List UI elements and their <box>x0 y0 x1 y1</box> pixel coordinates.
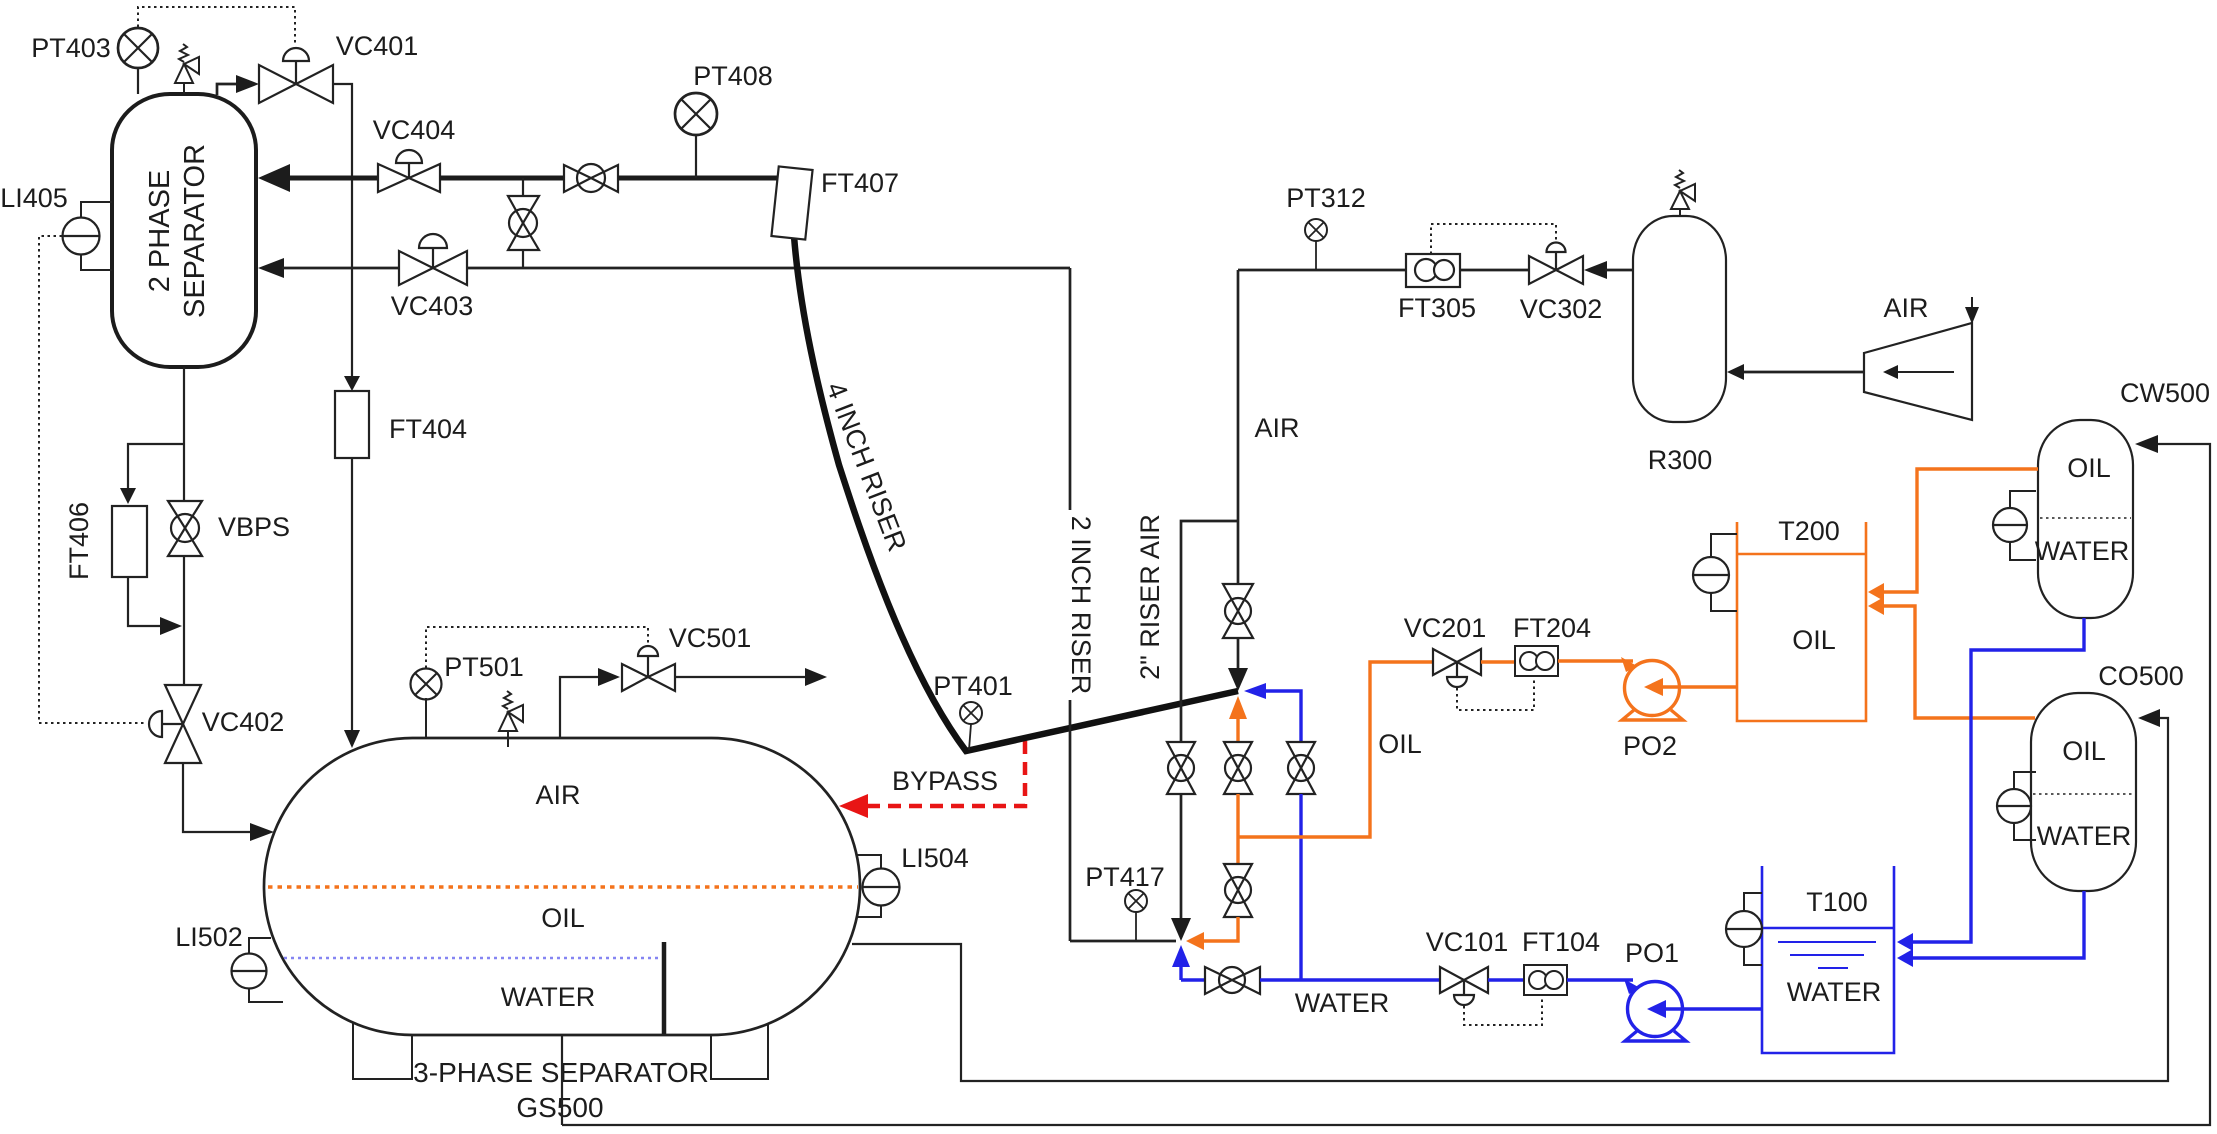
arrow suction into PO2 <box>1621 657 1637 672</box>
compressor air intake funnel <box>1864 323 1972 420</box>
valve VC501 <box>622 646 675 691</box>
svg-text:OIL: OIL <box>1792 625 1836 655</box>
pipe AIR valve to top junction <box>1237 638 1240 670</box>
flow transmitter FT305 <box>1406 254 1460 287</box>
svg-text:FT407: FT407 <box>821 168 899 198</box>
svg-text:FT406: FT406 <box>64 502 94 580</box>
pipe oil to 2 inch riser junction (orange) <box>1203 917 1238 941</box>
control loop VC101 to FT104 (dotted) <box>1464 995 1542 1025</box>
tank T200 (oil) <box>1737 522 1866 721</box>
relief valve on R300 <box>1671 170 1695 217</box>
bypass line (red dashed) <box>864 741 1025 806</box>
svg-text:BYPASS: BYPASS <box>892 766 998 796</box>
pipe compressor to R300 <box>1742 371 1864 374</box>
pipe water header left segment (blue) <box>1181 978 1205 981</box>
instrument PT401 <box>960 702 982 750</box>
instrument level gauge CO500 <box>1997 772 2036 840</box>
svg-text:T100: T100 <box>1806 887 1868 917</box>
arrow into CO500 <box>2138 709 2160 727</box>
bracket LI405 to vessel <box>81 202 112 270</box>
pipe VC403 to 2 inch riser <box>467 267 1070 270</box>
svg-text:PT408: PT408 <box>693 61 773 91</box>
svg-text:VC402: VC402 <box>202 707 285 737</box>
interface dotted CO500 <box>2033 793 2134 795</box>
svg-text:WATER: WATER <box>1295 988 1390 1018</box>
svg-text:2 INCH RISER: 2 INCH RISER <box>1066 516 1096 695</box>
globe valve on 2 inch riser air line <box>1167 742 1195 794</box>
pipe water header to VC101 (blue) <box>1260 978 1440 981</box>
globe valve vertical on cross connection <box>508 196 539 250</box>
pipe VC403 line left segment <box>282 267 399 270</box>
flow transmitter FT407 <box>771 166 812 239</box>
svg-text:FT305: FT305 <box>1398 293 1476 323</box>
instrument LI504 <box>863 869 900 906</box>
svg-text:2" RISER AIR: 2" RISER AIR <box>1135 514 1165 680</box>
globe valve on 4 inch line <box>564 164 618 192</box>
pipe VBPS to VC402 <box>183 556 185 685</box>
vessel CO500 oil coalescer <box>2031 693 2136 891</box>
pipe FT204 to pump PO2 (orange) <box>1558 659 1633 662</box>
svg-text:T200: T200 <box>1778 516 1840 546</box>
svg-text:WATER: WATER <box>1787 977 1882 1007</box>
arrow into FT406 <box>120 488 136 504</box>
svg-text:PT403: PT403 <box>31 33 111 63</box>
arrow inside funnel <box>1883 365 1954 379</box>
arrow oil into T200 upper (orange) <box>1868 583 1884 601</box>
interface dotted CW500 <box>2040 517 2131 519</box>
arrow into VC501 <box>598 668 620 686</box>
wire VC401 to FT404 <box>333 84 352 384</box>
pipe thick separator inlet <box>286 176 378 181</box>
svg-text:OIL: OIL <box>541 903 585 933</box>
arrow inside PO1 <box>1647 1000 1666 1018</box>
arrow thick inlet into separator (from VC404 line) <box>258 164 290 192</box>
pipe CO500 water outlet to T100 (blue) <box>1911 891 2084 958</box>
svg-text:OIL: OIL <box>2062 736 2106 766</box>
pipe PT312 air header <box>1238 269 1406 272</box>
arrow into FT404 <box>344 376 360 391</box>
pipe thick VC404 to globe valve <box>440 176 563 181</box>
arrow oil into 4 inch riser junction (orange) <box>1229 696 1247 719</box>
instrument PT403 <box>118 28 158 94</box>
pipe water valve down to water header (blue) <box>1299 794 1302 980</box>
bracket LI504 to vessel <box>856 855 881 917</box>
pipe water to top junction (blue) <box>1265 691 1301 742</box>
instrument level gauge T200 <box>1693 534 1737 611</box>
oil interface dotted line (orange) <box>268 885 858 888</box>
pipe 2 inch riser vertical <box>1069 268 1072 941</box>
arrow thin inlet into separator (from VC403 line) <box>258 258 284 278</box>
relief valve on 2-phase separator <box>175 44 199 94</box>
control loop VC201 to FT204 (dotted) <box>1457 677 1534 710</box>
svg-text:VC201: VC201 <box>1404 613 1487 643</box>
valve VC201 <box>1433 649 1481 687</box>
globe valve on water header <box>1205 967 1260 994</box>
pipe VC101 to FT104 (blue) <box>1488 978 1524 981</box>
pipe VC201 to FT204 (orange) <box>1481 660 1515 663</box>
globe valve on oil down branch <box>1224 864 1252 917</box>
svg-text:WATER: WATER <box>2037 821 2132 851</box>
svg-text:WATER: WATER <box>501 982 596 1012</box>
wire FT404 to GS500 <box>351 458 353 735</box>
pipe CW500 oil overflow to T200 (orange) <box>1881 469 2038 592</box>
weir plate <box>662 942 667 1034</box>
arrow air intake (top) <box>1965 297 1979 324</box>
vessel GS500 3-phase separator <box>264 738 860 1035</box>
valve VC404 <box>378 150 440 192</box>
instrument level gauge CW500 <box>1993 491 2036 560</box>
pipe GS500 water outlet to bottom header <box>561 1035 563 1125</box>
svg-text:PT312: PT312 <box>1286 183 1366 213</box>
arrow water into 2 inch riser junction (blue) <box>1172 945 1190 967</box>
pipe AIR main vertical <box>1237 270 1240 584</box>
instrument LI405 <box>63 218 100 255</box>
pipe oil to top junction (orange) <box>1236 718 1239 742</box>
arrow inside PO2 <box>1644 678 1663 696</box>
svg-text:VC401: VC401 <box>336 31 419 61</box>
svg-text:VC501: VC501 <box>669 623 752 653</box>
pipe 2 inch riser air branch <box>1181 521 1238 742</box>
svg-text:OIL: OIL <box>1378 729 1422 759</box>
svg-text:CW500: CW500 <box>2120 378 2210 408</box>
globe valve on AIR main line <box>1223 584 1253 638</box>
pipe water bottom header to CW500 <box>562 444 2210 1125</box>
pipe VC501 outlet <box>675 676 806 678</box>
arrow FT406 return <box>160 617 182 635</box>
pipe 4 inch riser (thick) <box>794 236 1238 751</box>
pump PO2 (oil) <box>1622 661 1737 721</box>
svg-text:FT404: FT404 <box>389 414 467 444</box>
valve VC101 <box>1440 967 1488 1005</box>
pipe CO500 oil overflow to T200 (orange) <box>1881 606 2035 718</box>
pipe GS500 oil outlet to CO500 <box>852 718 2168 1081</box>
arrow water into T100 upper (blue) <box>1897 933 1913 951</box>
control line PT501 to VC501 (dotted) <box>426 627 648 668</box>
pipe R300 to VC302 <box>1605 269 1633 272</box>
svg-text:WATER: WATER <box>2035 536 2130 566</box>
flow transmitter FT406 <box>112 506 147 577</box>
support leg left <box>353 1023 412 1079</box>
arrow oil into T200 lower (orange) <box>1868 597 1884 615</box>
pipe branch to FT406 <box>128 444 184 490</box>
svg-text:VC101: VC101 <box>1426 927 1509 957</box>
svg-text:VC302: VC302 <box>1520 294 1603 324</box>
arrow into GS500 top <box>344 730 360 748</box>
pipe VC402 to GS500 <box>183 763 250 832</box>
arrow VC501 outlet <box>805 668 827 686</box>
arrow water into T100 lower (blue) <box>1897 949 1913 967</box>
arrow into GS500 left <box>250 823 274 841</box>
arrow into VC302 from R300 <box>1584 261 1607 279</box>
arrow into VC401 <box>236 75 259 93</box>
svg-text:FT204: FT204 <box>1513 613 1591 643</box>
svg-text:FT104: FT104 <box>1522 927 1600 957</box>
arrow suction into PO1 <box>1624 979 1640 994</box>
pipe separator bottom outlet <box>183 367 185 501</box>
pipe riser air valve to junction <box>1180 794 1183 920</box>
vessel CW500 water coalescer <box>2038 420 2133 618</box>
tank T100 (water) <box>1762 866 1894 1053</box>
svg-text:GS500: GS500 <box>516 1092 603 1123</box>
valve VC402 <box>149 685 201 763</box>
arrow air into 4 inch riser junction <box>1228 668 1248 691</box>
svg-text:AIR: AIR <box>535 780 580 810</box>
svg-text:SEPARATOR: SEPARATOR <box>179 144 211 318</box>
pipe water up branch (blue) <box>1179 966 1182 980</box>
valve VC403 <box>399 234 467 285</box>
svg-text:LI502: LI502 <box>175 922 243 952</box>
control line LI405 to VC402 (dotted) <box>39 236 146 723</box>
pipe 2 inch riser bottom horizontal <box>1070 940 1176 943</box>
flow transmitter FT204 <box>1515 646 1558 676</box>
arrow into CW500 <box>2135 435 2158 453</box>
pipe FT406 back to main <box>128 577 160 626</box>
instrument PT408 <box>675 93 717 178</box>
pipe oil header horizontal (orange) <box>1238 662 1433 837</box>
globe valve on water riser feed <box>1287 742 1315 794</box>
valve VC401 <box>259 48 333 103</box>
vessel 2 PHASE SEPARATOR <box>112 94 256 367</box>
svg-text:PO1: PO1 <box>1625 938 1679 968</box>
globe valve on oil riser feed <box>1224 742 1252 794</box>
svg-text:PO2: PO2 <box>1623 731 1677 761</box>
flow transmitter FT404 <box>335 391 369 458</box>
svg-text:VC403: VC403 <box>391 291 474 321</box>
support leg right <box>711 1024 768 1079</box>
pipe FT305 to VC302 <box>1460 269 1529 272</box>
control line FT305 to VC302 (dotted) <box>1431 224 1556 254</box>
instrument PT312 <box>1305 219 1327 270</box>
pipe cross connection at x523 <box>522 178 524 268</box>
valve VBPS <box>168 501 202 556</box>
svg-text:2 PHASE: 2 PHASE <box>144 170 176 293</box>
instrument PT501 <box>411 669 442 740</box>
svg-text:LI405: LI405 <box>0 183 68 213</box>
svg-text:PT401: PT401 <box>933 671 1013 701</box>
water interface dotted line (blue) <box>284 957 661 960</box>
svg-text:OIL: OIL <box>2067 453 2111 483</box>
arrow air into 2 inch riser junction <box>1171 918 1191 941</box>
flow transmitter FT104 <box>1524 965 1567 995</box>
pipe thick globe valve to FT407 <box>618 176 782 181</box>
svg-text:AIR: AIR <box>1883 293 1928 323</box>
svg-text:VC404: VC404 <box>373 115 456 145</box>
bracket LI502 to vessel <box>249 938 283 1002</box>
valve VC302 <box>1529 243 1583 285</box>
control line PT403 to VC401 (dotted) <box>138 7 295 45</box>
pipe CW500 water outlet to T100 (blue) <box>1911 618 2084 942</box>
svg-text:R300: R300 <box>1648 445 1713 475</box>
pipe oil valve to oil header (orange) <box>1236 794 1239 864</box>
svg-text:CO500: CO500 <box>2098 661 2184 691</box>
svg-text:VBPS: VBPS <box>218 512 290 542</box>
arrow oil into 2 inch riser junction (orange) <box>1186 932 1204 950</box>
pipe GS500 gas outlet to VC501 <box>560 677 598 738</box>
instrument level gauge T100 <box>1726 893 1762 965</box>
pipe FT104 to pump PO1 (blue) <box>1567 978 1633 981</box>
svg-text:PT501: PT501 <box>444 652 524 682</box>
relief valve on GS500 <box>499 691 523 747</box>
svg-text:PT417: PT417 <box>1085 862 1165 892</box>
instrument LI502 <box>232 954 267 989</box>
svg-text:LI504: LI504 <box>901 843 969 873</box>
arrow water into 4 inch riser junction (blue) <box>1244 683 1266 699</box>
arrow into R300 <box>1727 364 1744 380</box>
svg-text:AIR: AIR <box>1254 413 1299 443</box>
arrow bypass into GS500 (red) <box>839 794 868 818</box>
vessel R300 air receiver <box>1633 216 1726 422</box>
pump PO1 (water) <box>1625 982 1762 1042</box>
wire vessel top to VC401 <box>217 84 238 95</box>
instrument PT417 <box>1125 890 1147 941</box>
